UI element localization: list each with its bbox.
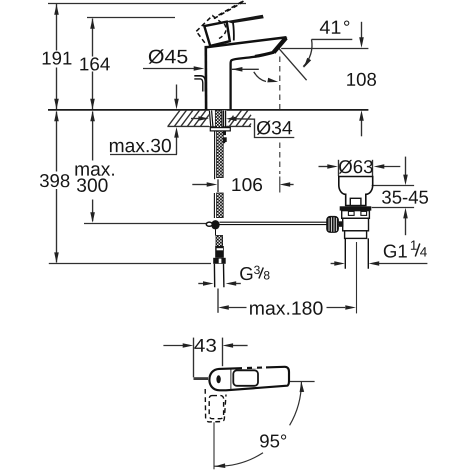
svg-text:1: 1 — [410, 238, 418, 253]
svg-text:8: 8 — [263, 268, 270, 282]
svg-text:°: ° — [343, 18, 351, 39]
svg-text:max.30: max.30 — [109, 136, 172, 157]
svg-text:164: 164 — [79, 53, 110, 74]
svg-text:43: 43 — [194, 335, 217, 356]
svg-text:4: 4 — [420, 245, 428, 260]
svg-text:G1: G1 — [383, 241, 408, 262]
svg-text:106: 106 — [231, 174, 263, 195]
svg-text:300: 300 — [76, 176, 108, 197]
svg-text:Ø45: Ø45 — [148, 46, 189, 68]
svg-text:G: G — [239, 263, 253, 284]
svg-text:Ø34: Ø34 — [256, 118, 293, 139]
svg-text:95°: 95° — [259, 430, 287, 451]
svg-text:max.180: max.180 — [249, 299, 324, 320]
svg-text:191: 191 — [41, 47, 72, 68]
svg-text:Ø63: Ø63 — [338, 156, 373, 177]
svg-text:108: 108 — [346, 69, 377, 90]
svg-text:398: 398 — [39, 170, 70, 191]
svg-text:41: 41 — [319, 18, 341, 39]
svg-text:35-45: 35-45 — [381, 187, 428, 208]
